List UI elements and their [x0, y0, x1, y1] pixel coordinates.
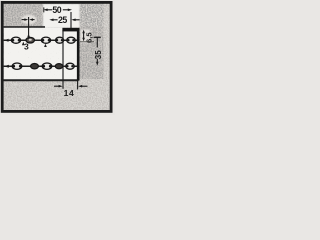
insulator roller row2 #1	[12, 63, 22, 69]
white label patch for top dimensions	[43, 4, 80, 28]
extension line x=28.5 down to wire 1 with down arrow	[27, 17, 30, 40]
svg-text:50: 50	[52, 5, 61, 15]
paper background inside frame	[0, 0, 115, 115]
picture frame border	[2, 2, 111, 111]
dimension 14: left arrow (outside)	[54, 85, 63, 88]
insulator roller row2 #3	[42, 63, 52, 69]
wire row 1 left end nub	[4, 39, 9, 42]
hatched bands: ceiling (top) and wall (right)	[3, 4, 104, 80]
dimension 25: right arrow (from outside, pointing left)	[71, 19, 79, 22]
small up arrow at wire 1	[22, 42, 25, 46]
ceiling hatched band	[3, 4, 80, 28]
wall hatched band	[79, 27, 104, 80]
insulator roller row1 #3	[41, 37, 50, 43]
insulator roller row2 #2 (small dark)	[31, 63, 39, 68]
label patch for right vertical dimension	[81, 30, 91, 44]
dimension 14: extension line right	[77, 80, 79, 89]
dimension 50: left arrow	[43, 7, 52, 12]
wire row 2 left end nub	[4, 65, 9, 68]
insulator roller row1 #1	[11, 37, 20, 43]
insulator roller row1 #5 (on batten)	[67, 37, 76, 43]
floor/skirting line at bottom of room	[3, 79, 79, 81]
wire row 1	[4, 39, 78, 41]
wooden batten right edge (thick)	[77, 28, 80, 81]
dimension 25: left arrow	[49, 19, 57, 22]
svg-text:35: 35	[94, 50, 103, 59]
insulator roller row1 #4	[56, 37, 64, 43]
white spot around left extension-line arrows	[22, 15, 37, 25]
ceiling boundary line	[3, 26, 45, 28]
batten top cap (solid bar)	[62, 28, 79, 32]
insulator roller row2 #5 (on batten)	[66, 63, 75, 69]
dimension 50: right arrow	[63, 9, 72, 12]
right vertical dimension 35 (wire1 to wire2)	[94, 37, 101, 65]
dimension 14: extension line left	[62, 80, 64, 89]
insulator roller row2 #4 (small dark)	[55, 64, 62, 69]
faint wire stub through wall	[80, 41, 94, 43]
right vertical dimension 6,5 (bar top to wire1)	[82, 30, 85, 42]
wire row 2	[4, 65, 78, 67]
insulator roller row1 #2 (dark)	[26, 37, 34, 43]
shared extension line at x=71	[70, 12, 72, 28]
svg-text:3: 3	[24, 42, 29, 52]
svg-text:25: 25	[58, 15, 67, 25]
small tick below roller row1 #3	[44, 44, 47, 47]
dimension 14: right arrow (outside)	[78, 85, 87, 88]
wooden batten left edge	[62, 30, 64, 80]
white room interior (clean area with wires)	[4, 28, 79, 80]
svg-text:14: 14	[64, 88, 75, 98]
arrows meeting at extension line x=28.5	[22, 18, 35, 21]
